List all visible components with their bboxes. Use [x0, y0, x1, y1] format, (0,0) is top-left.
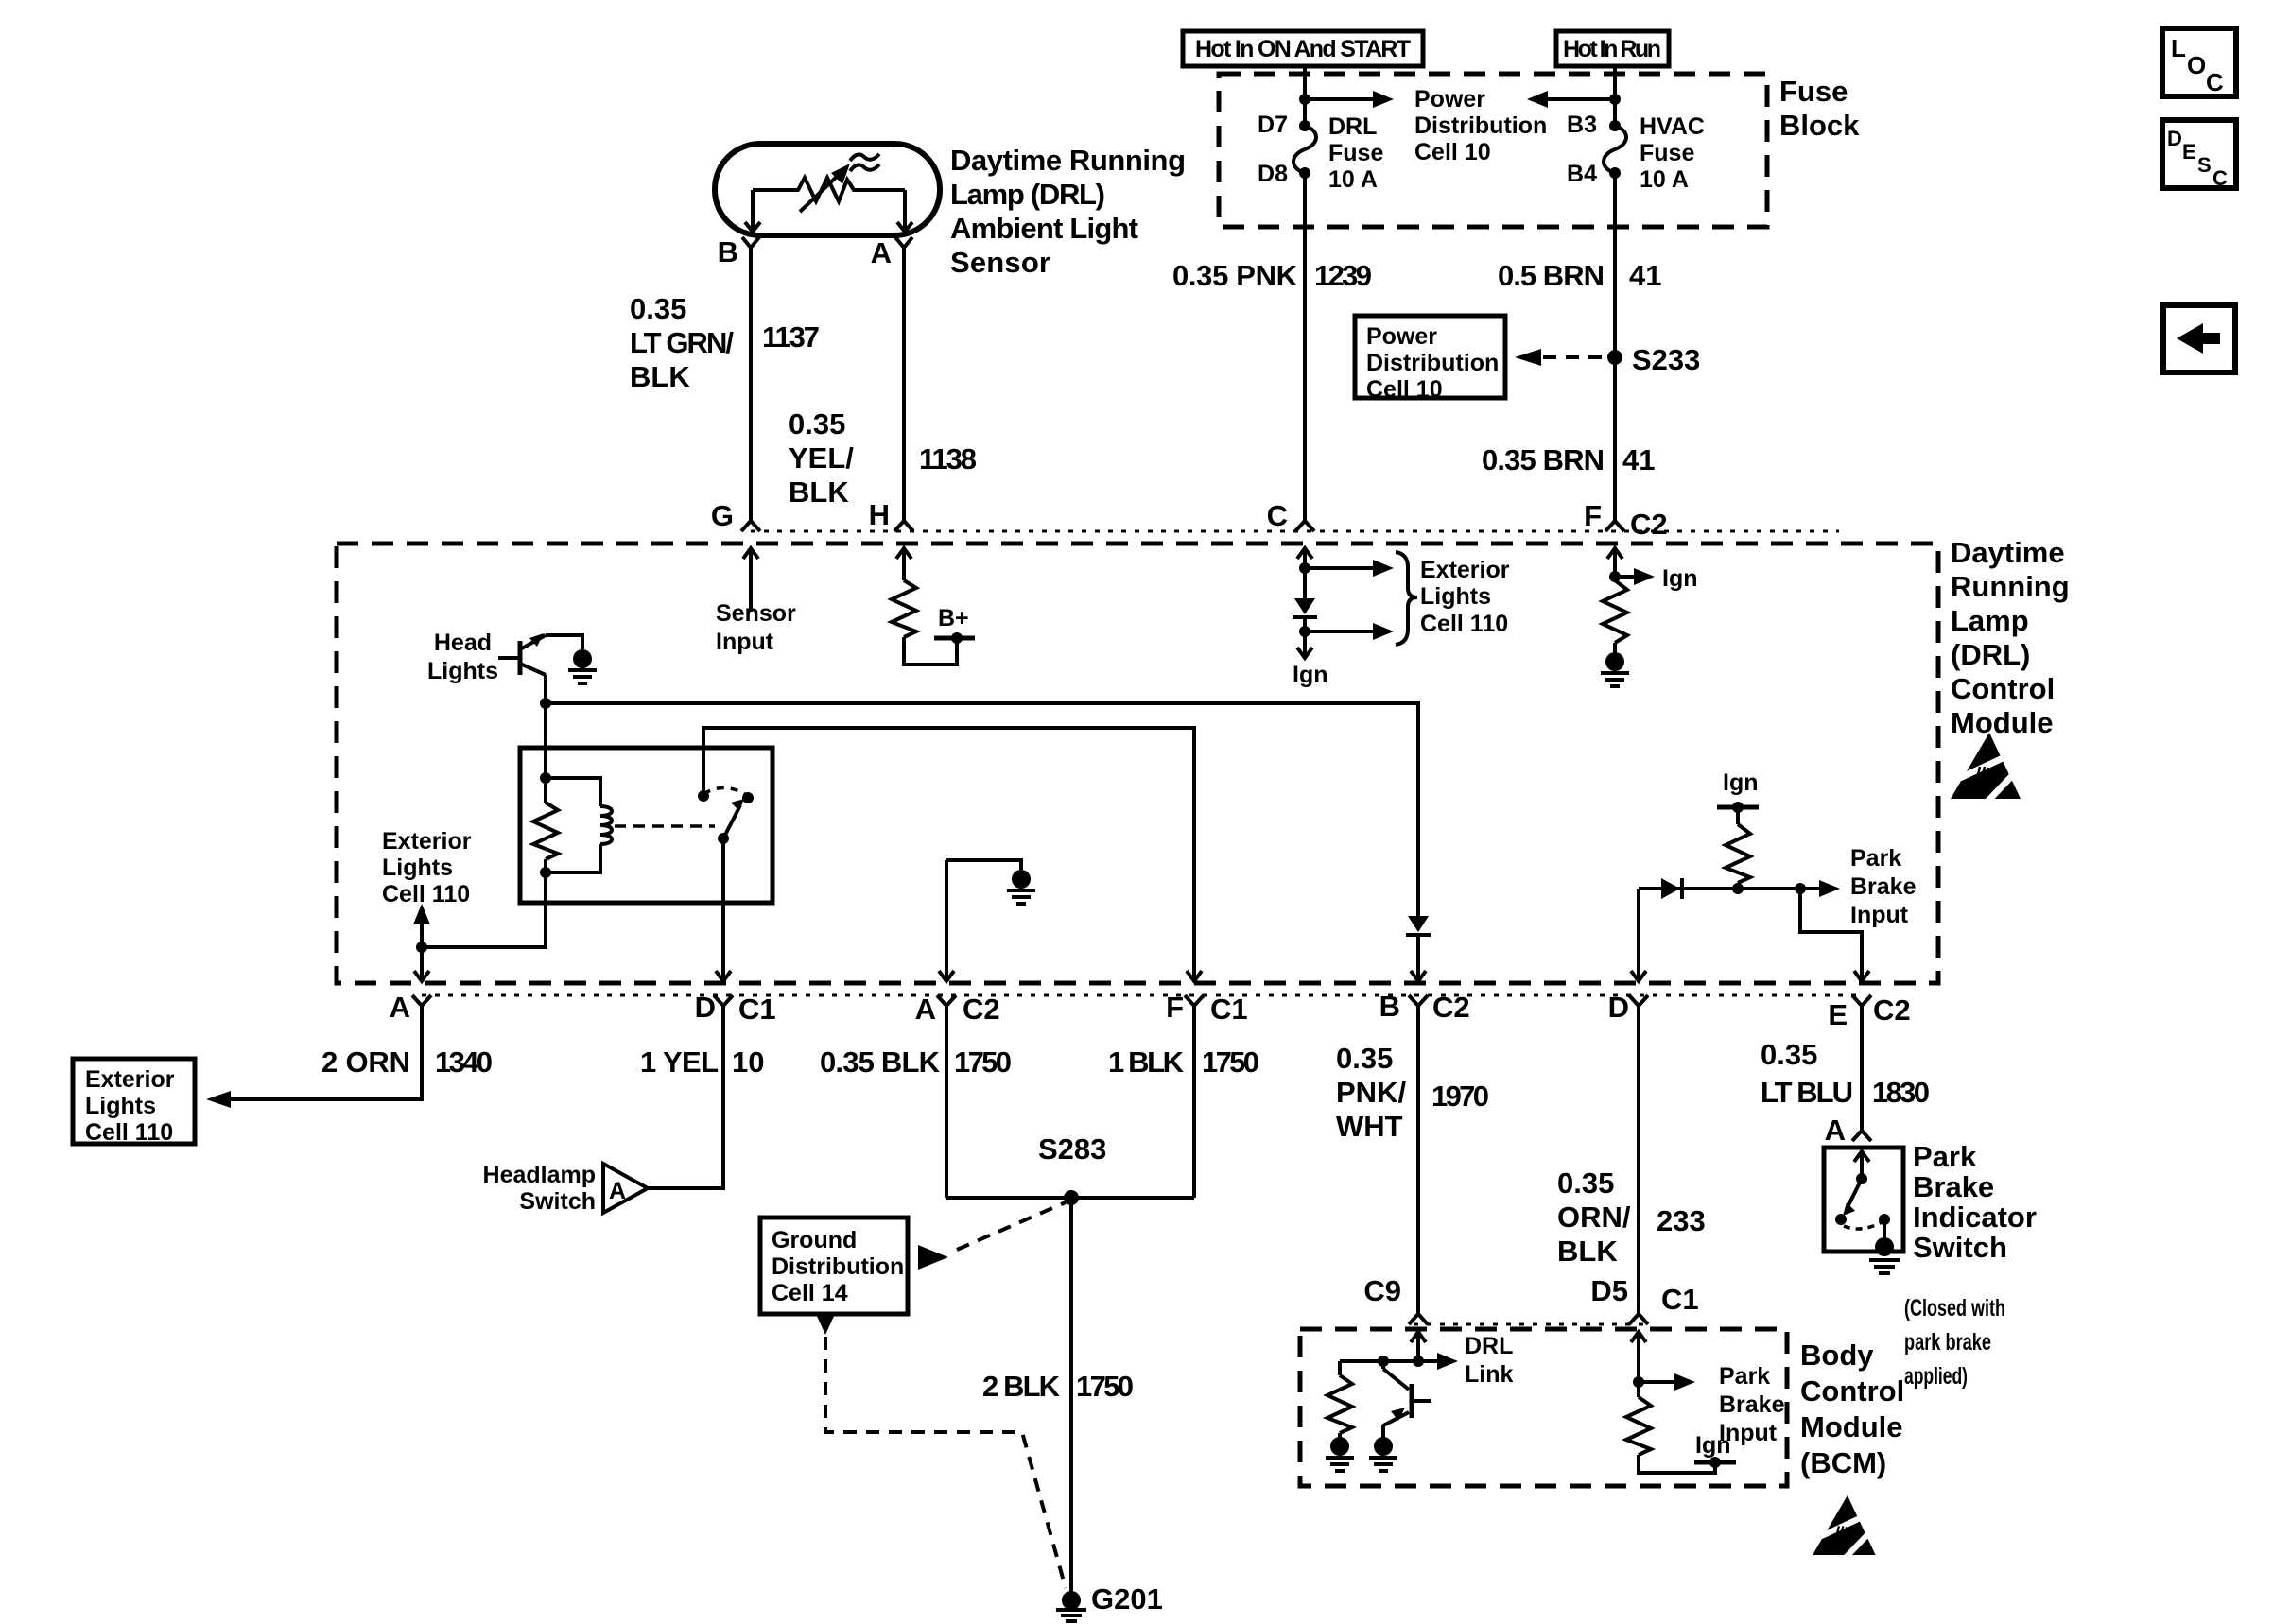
svg-text:Ign: Ign: [1662, 565, 1698, 592]
svg-text:Distribution: Distribution: [1414, 112, 1547, 139]
svg-text:S: S: [2197, 153, 2212, 177]
svg-text:A: A: [915, 993, 936, 1026]
ESD sensitive device icon (BCM): [1813, 1495, 1881, 1560]
arrow to Exterior Lights (lower): [1305, 630, 1373, 633]
splice S283: [1064, 1190, 1079, 1205]
transistor Q2 in BCM: [1383, 1361, 1431, 1438]
connector fork at park brake A: [1852, 1131, 1871, 1141]
svg-text:Lamp: Lamp: [1951, 604, 2029, 637]
svg-text:G201: G201: [1091, 1582, 1163, 1615]
svg-text:0.5 BRN: 0.5 BRN: [1498, 259, 1605, 292]
svg-text:Sensor: Sensor: [950, 246, 1050, 279]
connector fork at sensor A: [895, 237, 912, 248]
svg-text:Input: Input: [1850, 902, 1909, 928]
svg-text:HVAC: HVAC: [1640, 113, 1705, 140]
svg-text:2 ORN: 2 ORN: [321, 1045, 410, 1079]
svg-text:D5: D5: [1590, 1274, 1628, 1307]
back-arrow legend box: [2163, 305, 2235, 372]
svg-text:(DRL): (DRL): [1951, 638, 2030, 671]
DESC legend box: [2162, 120, 2236, 190]
D5 arrow into BCM: [1631, 1332, 1646, 1382]
node at park brake junction: [1732, 883, 1744, 894]
wire long horizontal to B C2 drop: [546, 703, 1418, 916]
brace for Exterior Lights Cell 110: [1396, 552, 1417, 645]
svg-text:Cell 110: Cell 110: [1420, 611, 1508, 637]
svg-text:A: A: [390, 991, 410, 1024]
svg-text:Hot In Run: Hot In Run: [1563, 36, 1661, 62]
fuse block dashed box: [1219, 74, 1767, 227]
svg-text:B+: B+: [938, 605, 969, 631]
resistor on park brake pull-up: [1726, 807, 1750, 889]
svg-text:Cell 14: Cell 14: [772, 1280, 848, 1306]
svg-text:H: H: [869, 498, 890, 531]
Power Distribution Cell 10 reference box: [1355, 316, 1505, 403]
svg-text:0.35 BLK: 0.35 BLK: [820, 1045, 941, 1079]
svg-text:B4: B4: [1567, 161, 1597, 187]
svg-text:Block: Block: [1779, 109, 1860, 142]
svg-text:C9: C9: [1363, 1274, 1401, 1307]
svg-text:0.35: 0.35: [630, 292, 686, 325]
Hot In ON And START box: [1183, 31, 1423, 66]
svg-text:1 BLK: 1 BLK: [1108, 1045, 1185, 1079]
svg-text:Daytime: Daytime: [1951, 536, 2065, 569]
node on Ign bar: [1732, 802, 1744, 813]
connector fork at F: [1605, 521, 1624, 531]
svg-text:Park: Park: [1913, 1140, 1977, 1173]
svg-text:Cell 110: Cell 110: [85, 1119, 173, 1146]
wire from relay coil bottom to exterior lights node: [422, 872, 546, 947]
Ground Distribution Cell 14 reference box: [760, 1218, 908, 1314]
wire to connector D with arrow: [1631, 889, 1646, 981]
svg-text:233: 233: [1657, 1204, 1706, 1237]
ESD sensitive device icon (DRL module): [1951, 733, 2026, 803]
svg-text:Fuse: Fuse: [1640, 140, 1694, 166]
svg-text:Park: Park: [1719, 1363, 1770, 1390]
headlamp switch triangle: [603, 1164, 648, 1213]
splice bus to S283: [946, 1196, 1194, 1200]
svg-text:A: A: [609, 1178, 626, 1204]
svg-text:1750: 1750: [1202, 1045, 1259, 1079]
wire from Hot In ON And START to DRL fuse: [1303, 66, 1307, 126]
dashed reference arrow to S283: [918, 1202, 1066, 1270]
connector fork at A C2: [937, 995, 956, 1006]
svg-text:PNK/: PNK/: [1336, 1076, 1406, 1109]
wire 0.35 LT BLU 1830 down to park brake switch: [1860, 1006, 1864, 1131]
svg-text:Brake: Brake: [1913, 1170, 1994, 1203]
svg-text:41: 41: [1629, 259, 1661, 292]
svg-text:(BCM): (BCM): [1800, 1446, 1886, 1479]
svg-text:Switch: Switch: [519, 1188, 596, 1215]
svg-text:0.35 PNK: 0.35 PNK: [1172, 259, 1298, 292]
BCM dashed box: [1300, 1329, 1787, 1486]
relay switch contacts: [698, 787, 754, 844]
node on C input: [1299, 562, 1310, 574]
Hot In Run box: [1556, 31, 1669, 66]
wire 2 BLK 1750 to G201: [1069, 1198, 1073, 1594]
relay coil circuit: [533, 703, 612, 878]
svg-text:Lights: Lights: [85, 1093, 156, 1119]
svg-text:D: D: [1608, 991, 1629, 1024]
svg-text:A: A: [1825, 1114, 1846, 1147]
svg-text:41: 41: [1622, 443, 1655, 476]
svg-text:Switch: Switch: [1913, 1231, 2007, 1264]
Ign supply bar: [1717, 805, 1759, 810]
node junction on HVAC feed: [1609, 94, 1621, 105]
svg-text:Ground: Ground: [772, 1227, 857, 1253]
variable resistor arrow in sensor: [800, 164, 850, 212]
wire to BCM pull resistor: [1340, 1359, 1418, 1363]
svg-text:O: O: [2187, 51, 2206, 79]
resistor in BCM (left): [1327, 1361, 1352, 1438]
svg-text:C2: C2: [1432, 991, 1470, 1024]
svg-text:E: E: [1828, 998, 1848, 1031]
Park Brake Input arrow: [1800, 887, 1819, 890]
connector fork at G: [741, 521, 760, 531]
svg-text:Hot In ON And START: Hot In ON And START: [1195, 36, 1411, 62]
svg-text:1 YEL: 1 YEL: [640, 1045, 719, 1079]
ground G201: [1056, 1591, 1086, 1621]
connector fork at D right: [1629, 995, 1648, 1006]
svg-text:L: L: [2171, 34, 2186, 62]
LOC legend box: [2162, 28, 2236, 96]
svg-text:Cell 110: Cell 110: [382, 881, 470, 907]
relay coil-to-armature dashed link: [615, 824, 715, 828]
svg-text:DRL: DRL: [1328, 113, 1377, 140]
connector fork at E C2: [1852, 995, 1871, 1006]
wire 0.35 ORN/BLK 233 down to D5: [1637, 1006, 1640, 1314]
wire diode to connector B with arrow: [1411, 935, 1426, 981]
connector dotted line C9 to D5: [1414, 1323, 1645, 1326]
connector fork at D5: [1629, 1314, 1648, 1324]
transistor Q1 head lights: [498, 633, 546, 675]
svg-text:10 A: 10 A: [1640, 166, 1689, 193]
arrow into Exterior Lights box: [206, 1091, 231, 1108]
svg-text:0.35: 0.35: [789, 407, 845, 441]
resistor on F branch: [1603, 580, 1627, 643]
svg-text:0.35 BRN: 0.35 BRN: [1482, 443, 1605, 476]
wire from H resistor to B+: [904, 637, 957, 665]
svg-text:C1: C1: [738, 993, 776, 1026]
svg-text:BLK: BLK: [789, 475, 849, 509]
wire PNK 1239 from fuse to connector C: [1303, 173, 1307, 521]
connector fork at D: [714, 995, 733, 1006]
park brake switch internals: [1835, 1151, 1890, 1240]
diode D2 on park brake branch: [1661, 878, 1682, 899]
resistor on H input: [892, 580, 916, 637]
fuse F1 DRL Fuse 10 A: [1293, 120, 1316, 179]
wire from relay common contact to F C1 drop: [703, 728, 1194, 981]
svg-text:Exterior: Exterior: [85, 1066, 175, 1093]
arrow to Exterior Lights (upper): [1305, 566, 1373, 570]
Exterior Lights Cell 110 reference box: [73, 1059, 195, 1146]
node at exterior lights junction: [416, 942, 427, 953]
Ign bar in BCM: [1694, 1460, 1736, 1465]
svg-text:B3: B3: [1567, 112, 1597, 138]
wire to connector E with arrow: [1800, 889, 1869, 981]
pin F arrow: [1607, 548, 1622, 580]
svg-text:10 A: 10 A: [1328, 166, 1378, 193]
svg-text:C2: C2: [1873, 993, 1911, 1027]
svg-text:C2: C2: [963, 993, 1000, 1026]
arrow up to Exterior Lights Cell 110 label: [413, 904, 430, 947]
node on BCM Ign bar: [1709, 1457, 1721, 1468]
svg-text:1970: 1970: [1431, 1080, 1489, 1113]
svg-text:Running: Running: [1951, 570, 2070, 603]
ground symbol mid module: [946, 860, 1035, 904]
svg-text:B: B: [718, 235, 738, 268]
svg-text:BLK: BLK: [630, 360, 690, 393]
svg-text:LT GRN/: LT GRN/: [630, 326, 734, 359]
svg-text:G: G: [711, 499, 734, 532]
svg-text:Fuse: Fuse: [1779, 75, 1848, 108]
svg-text:A: A: [871, 236, 892, 269]
svg-text:10: 10: [732, 1045, 764, 1079]
node at BCM transistor collector: [1378, 1356, 1389, 1367]
ground symbol at head lights transistor: [546, 635, 597, 683]
Ign arrow down on C branch: [1297, 631, 1312, 658]
svg-text:S233: S233: [1632, 343, 1700, 376]
svg-text:Fuse: Fuse: [1328, 140, 1383, 166]
wire from relay armature to connector D C1: [716, 838, 731, 981]
svg-text:ORN/: ORN/: [1557, 1201, 1631, 1234]
wire junction to connector A with arrow: [414, 947, 429, 981]
wire BRN 41 from HVAC fuse down: [1613, 173, 1617, 521]
wire park brake horizontal run: [1639, 887, 1800, 890]
diode on C input: [1293, 598, 1317, 631]
ground symbol BCM transistor: [1369, 1437, 1397, 1471]
DRL Link arrow: [1418, 1359, 1437, 1363]
dashed reference path to G201: [816, 1314, 1066, 1588]
splice S233 dashed arrow to Power Distribution: [1515, 349, 1611, 366]
svg-text:C: C: [1267, 499, 1288, 532]
B+ node bar: [934, 636, 975, 641]
svg-text:Lamp (DRL): Lamp (DRL): [950, 178, 1105, 211]
ground symbol BCM left: [1326, 1437, 1354, 1471]
connector fork at B C2: [1409, 995, 1428, 1006]
node on DRL link: [1413, 1356, 1424, 1367]
svg-text:0.35: 0.35: [1336, 1042, 1393, 1075]
svg-text:F: F: [1166, 991, 1184, 1024]
svg-text:1750: 1750: [954, 1045, 1012, 1079]
Park Brake Input arrow (BCM): [1639, 1380, 1674, 1384]
fuse F2 HVAC Fuse 10 A: [1604, 120, 1626, 179]
svg-text:E: E: [2182, 140, 2196, 164]
diode on B C2 drop: [1406, 916, 1431, 935]
pin C arrow: [1297, 548, 1312, 598]
arrow to Power Distribution Cell 10: [1305, 97, 1373, 101]
C9 arrow into BCM: [1411, 1332, 1426, 1361]
Ign arrow right on F branch: [1615, 575, 1634, 579]
svg-text:LT BLU: LT BLU: [1761, 1076, 1853, 1109]
svg-text:DRL: DRL: [1465, 1333, 1513, 1359]
wire 0.35 BLK 1750 down to S283: [945, 1006, 948, 1198]
node right of resistor: [1795, 883, 1806, 894]
node at emitter junction: [540, 698, 551, 709]
connector fork at C9: [1409, 1314, 1428, 1324]
svg-text:S283: S283: [1038, 1132, 1106, 1166]
svg-text:Brake: Brake: [1850, 873, 1917, 900]
svg-text:Cell 10: Cell 10: [1414, 139, 1491, 165]
svg-text:Exterior: Exterior: [382, 828, 472, 855]
svg-text:Control: Control: [1951, 672, 2055, 705]
connector dotted line (top row): [751, 530, 1839, 533]
svg-text:Control: Control: [1800, 1374, 1904, 1408]
wire 1 BLK 1750 down to S283: [1192, 1006, 1196, 1198]
wire LT GRN 1137: [749, 248, 753, 521]
svg-text:Ign: Ign: [1293, 662, 1328, 688]
svg-text:F: F: [1584, 499, 1602, 532]
svg-text:D7: D7: [1258, 112, 1288, 138]
svg-text:C: C: [2212, 166, 2228, 190]
svg-text:Power: Power: [1366, 323, 1437, 350]
svg-text:1830: 1830: [1872, 1076, 1930, 1109]
svg-text:1340: 1340: [435, 1045, 493, 1079]
svg-text:Module: Module: [1951, 706, 2054, 739]
svg-text:YEL/: YEL/: [789, 441, 854, 475]
connector fork at F C1: [1185, 995, 1204, 1006]
svg-text:0.35: 0.35: [1761, 1038, 1817, 1071]
svg-text:D: D: [695, 991, 716, 1024]
node junction on DRL feed: [1299, 94, 1310, 105]
svg-text:BLK: BLK: [1557, 1235, 1618, 1268]
svg-text:Power: Power: [1414, 86, 1485, 112]
svg-text:1750: 1750: [1076, 1370, 1134, 1403]
svg-text:1137: 1137: [762, 320, 820, 354]
svg-text:1138: 1138: [919, 442, 977, 475]
arrow at connector F C1: [1187, 971, 1202, 981]
svg-text:Daytime Running: Daytime Running: [950, 144, 1186, 177]
svg-text:C1: C1: [1661, 1283, 1699, 1316]
svg-text:Brake: Brake: [1719, 1391, 1785, 1418]
svg-text:C: C: [2206, 68, 2224, 96]
svg-text:applied): applied): [1904, 1363, 1968, 1390]
svg-text:Ign: Ign: [1723, 769, 1759, 796]
svg-text:Distribution: Distribution: [1366, 350, 1499, 376]
B+ node dot: [951, 632, 963, 644]
svg-text:Link: Link: [1465, 1361, 1513, 1388]
svg-text:Head: Head: [434, 630, 492, 656]
svg-text:Park: Park: [1850, 845, 1901, 872]
svg-text:Body: Body: [1800, 1339, 1874, 1372]
DRL Control Module dashed box: [337, 544, 1938, 983]
sensor oval body: [715, 144, 940, 235]
sensor internal circuit: [745, 178, 912, 233]
svg-text:park brake: park brake: [1904, 1329, 1991, 1356]
svg-text:(Closed with: (Closed with: [1904, 1295, 2005, 1322]
svg-text:Headlamp: Headlamp: [483, 1162, 596, 1188]
wire 2 ORN 1340 to exterior lights: [231, 1006, 422, 1099]
wire from Hot In Run to HVAC fuse: [1613, 66, 1617, 126]
connector fork at A: [412, 995, 431, 1006]
connector fork at H: [894, 521, 913, 531]
svg-text:Module: Module: [1800, 1410, 1903, 1443]
svg-text:Exterior: Exterior: [1420, 557, 1510, 583]
svg-text:WHT: WHT: [1336, 1110, 1403, 1143]
svg-text:Cell 10: Cell 10: [1366, 376, 1443, 403]
wire ground to connector A C2 with arrow: [939, 860, 954, 981]
svg-text:Lights: Lights: [382, 855, 453, 881]
wire from transistor emitter down: [544, 675, 547, 703]
svg-text:0.35: 0.35: [1557, 1166, 1614, 1200]
svg-text:D8: D8: [1258, 161, 1288, 187]
svg-text:B: B: [1379, 990, 1400, 1023]
park brake indicator switch box: [1824, 1148, 1903, 1252]
svg-text:Distribution: Distribution: [772, 1253, 904, 1280]
svg-text:C1: C1: [1210, 993, 1248, 1026]
node on F input: [1609, 571, 1621, 582]
svg-text:Input: Input: [716, 629, 774, 655]
svg-text:1239: 1239: [1314, 259, 1372, 292]
wire 1 YEL 10 to headlamp switch: [648, 1006, 723, 1188]
svg-text:2 BLK: 2 BLK: [982, 1370, 1061, 1403]
pin G arrow (Sensor Input): [743, 548, 758, 612]
resistor in BCM (park brake): [1626, 1382, 1651, 1455]
node below diode: [1299, 626, 1310, 637]
splice S233: [1607, 350, 1622, 365]
relay K1 box: [520, 748, 772, 903]
svg-text:Indicator: Indicator: [1913, 1201, 2037, 1234]
wire YEL 1138: [902, 248, 906, 521]
connector dotted line (bottom row): [422, 994, 1862, 997]
wire to Ign node in BCM: [1639, 1455, 1715, 1473]
svg-text:C2: C2: [1630, 508, 1668, 541]
pin H arrow: [896, 548, 911, 580]
svg-text:Lights: Lights: [1420, 583, 1491, 610]
wire 0.35 PNK/WHT 1970 down to C9: [1416, 1006, 1420, 1314]
ground symbol on F branch: [1601, 643, 1629, 686]
connector fork at sensor B: [742, 237, 759, 248]
node on park brake input: [1633, 1376, 1644, 1388]
ground symbol park brake switch: [1869, 1237, 1900, 1273]
svg-text:Ign: Ign: [1695, 1432, 1731, 1459]
svg-text:Sensor: Sensor: [716, 600, 796, 627]
arrow to Power Distribution (left): [1548, 97, 1615, 101]
svg-text:Lights: Lights: [427, 658, 498, 684]
svg-text:Ambient Light: Ambient Light: [950, 212, 1138, 245]
light squiggles on sensor: [850, 154, 879, 171]
connector fork at C: [1295, 521, 1314, 531]
svg-text:D: D: [2167, 127, 2182, 150]
